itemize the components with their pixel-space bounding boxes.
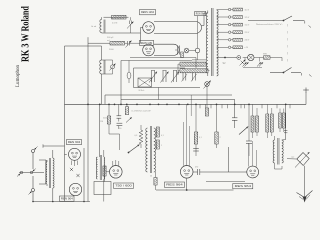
bus ticks <box>200 104 290 108</box>
mains switch pole 1 <box>283 16 292 21</box>
coil L1 <box>100 17 105 33</box>
svg-text:0,1 MOhm 0,25 W: 0,1 MOhm 0,25 W <box>132 111 151 113</box>
svg-text:REN 904: REN 904 <box>68 140 81 144</box>
bus B1 <box>105 95 232 104</box>
wire tuned loop bottom <box>102 32 141 34</box>
trimmer C2 <box>126 41 132 48</box>
svg-text:Lumophon: Lumophon <box>15 65 21 87</box>
vari coil pair 1 <box>149 71 157 83</box>
transformer T5 primary <box>206 11 208 77</box>
band box bottom <box>134 87 201 89</box>
wire v x99 <box>99 104 101 157</box>
pot arrow <box>126 117 132 122</box>
voltage tap row 4 <box>217 31 250 34</box>
tube V5 label <box>114 183 134 188</box>
pilot lamp <box>248 54 254 60</box>
tube V4 <box>143 44 155 56</box>
capacitor C8 value <box>195 167 198 169</box>
tube V2 label <box>60 196 75 201</box>
resistor R10 value <box>161 135 164 137</box>
wire grid drop <box>190 95 192 116</box>
resistor R12 <box>103 166 106 176</box>
svg-text:0,1: 0,1 <box>199 137 202 139</box>
wire loop to transformer <box>202 13 208 26</box>
dial lamp <box>204 81 211 105</box>
tube V6 <box>180 166 193 179</box>
svg-text:220 V: 220 V <box>245 32 250 34</box>
svg-text:2: 2 <box>220 137 221 139</box>
voltage tap row 6 <box>217 46 248 49</box>
vari coil pair 2 <box>161 71 169 83</box>
resistor R9 value <box>100 121 103 123</box>
ground <box>297 191 313 203</box>
antenna jack <box>32 147 38 170</box>
svg-text:REN 904: REN 904 <box>61 197 74 201</box>
svg-text:RES 964: RES 964 <box>166 183 183 187</box>
transformer T3 win2 <box>154 128 156 172</box>
capacitor C8 <box>193 169 229 175</box>
svg-text:0,1: 0,1 <box>161 135 164 137</box>
transformer T4 win1 <box>273 104 274 163</box>
coil L1 value <box>91 25 97 28</box>
tube V1 <box>69 148 81 160</box>
rectifier label box <box>195 11 206 15</box>
svg-text:e 20: e 20 <box>245 47 249 49</box>
pickup jack 1 <box>17 171 23 176</box>
svg-text:Lspr: Lspr <box>291 156 295 159</box>
transformer T5 secondary <box>217 10 219 76</box>
svg-text:150 V: 150 V <box>245 24 250 26</box>
resistor R11 <box>154 172 157 190</box>
bus B3 dots <box>87 104 286 106</box>
wire v x228 <box>228 147 230 172</box>
grid loop V3 <box>154 22 202 34</box>
rectifier D2 <box>257 62 263 66</box>
svg-text:WW: WW <box>263 54 267 56</box>
tube V5 pins <box>113 160 119 166</box>
resistor R13 value <box>199 137 202 139</box>
wire loopline <box>121 61 192 105</box>
wire row2 <box>88 42 141 44</box>
wire to switch <box>270 58 282 62</box>
trimmer C3 <box>102 60 116 74</box>
capacitor C7 <box>117 123 123 129</box>
wire v x100 <box>101 46 103 104</box>
transformer T3 core <box>150 126 151 173</box>
rectifier pilot <box>192 16 206 60</box>
wire tube grid <box>141 28 143 44</box>
transformer T2 win2 <box>104 150 105 202</box>
capacitor C10 <box>246 104 252 156</box>
svg-text:750 / 600: 750 / 600 <box>115 184 132 188</box>
capacitor C xmark b <box>76 174 79 177</box>
bus drop x285 <box>282 104 288 140</box>
svg-text:RES 964: RES 964 <box>235 184 252 188</box>
transformer T2 win1 <box>96 157 97 179</box>
trimmer C1 <box>127 17 134 33</box>
bus B4 <box>156 189 234 191</box>
wire T4 <box>275 136 283 169</box>
resistor pair RP1 <box>251 104 259 138</box>
speaker <box>287 152 310 168</box>
resistor R10 <box>156 127 159 137</box>
resistor R14 value <box>220 137 221 139</box>
resistor R7 <box>125 104 128 114</box>
earth jack <box>29 176 35 202</box>
tube V7 <box>247 166 259 178</box>
resistor R7 value <box>132 111 151 113</box>
mains switch pole 2 <box>283 24 292 73</box>
resistor R2 value <box>109 49 114 51</box>
capacitor C4 <box>175 46 180 55</box>
shield box top <box>65 45 102 47</box>
svg-text:470: 470 <box>195 167 198 169</box>
bus drop x234 with capacitor <box>232 100 237 129</box>
cap electrolytic <box>127 61 131 84</box>
shield stub <box>43 144 65 147</box>
svg-text:RGN 954: RGN 954 <box>196 12 206 15</box>
svg-text:50: 50 <box>150 176 152 178</box>
tube V6 label <box>165 182 185 187</box>
wire mains line 1 <box>248 21 305 24</box>
bus B2 <box>121 99 235 101</box>
dial lamp resistor <box>206 104 209 116</box>
wire tuned loop top <box>104 16 129 18</box>
tube V7 pins <box>229 141 257 172</box>
resistor R9 <box>107 116 119 150</box>
svg-text:Netzanschluss 220 V~: Netzanschluss 220 V~ <box>256 23 284 26</box>
capacitor C6 <box>117 104 122 121</box>
lamp symbol <box>184 48 189 53</box>
pot arrow 2 <box>239 127 248 135</box>
transformer T4 win2 <box>282 140 283 163</box>
title Lumophon (brand, rotated) <box>15 65 21 87</box>
capacitor C7 value <box>118 128 122 130</box>
svg-text:RK 3 W Roland: RK 3 W Roland <box>21 6 32 62</box>
wire v x109 <box>108 104 110 116</box>
resistor R1 <box>112 15 127 19</box>
resistor R2 <box>110 41 125 45</box>
resistor R1 value <box>112 23 117 25</box>
capacitor C6 value <box>103 118 108 120</box>
wire plate res <box>206 64 210 71</box>
tube V3 label <box>140 10 156 15</box>
capacitor C9 <box>193 149 199 152</box>
band box top <box>134 68 186 88</box>
resistor pair RP3 <box>279 109 286 133</box>
label mid <box>107 37 114 42</box>
svg-text:240 V: 240 V <box>245 40 250 42</box>
label S2 <box>223 62 227 65</box>
svg-text:110 V: 110 V <box>245 9 250 11</box>
resistor R6 <box>263 54 270 60</box>
wire v x88 <box>87 37 89 201</box>
transformer T5 core <box>211 8 213 76</box>
wire comb drop <box>158 88 160 100</box>
bus B3 (main) <box>65 103 307 105</box>
switch arrow wave <box>128 145 140 154</box>
wire mains line 2 <box>270 73 301 76</box>
tube V4 label <box>140 40 154 45</box>
mains plug mark 2 <box>309 75 312 77</box>
resistor pair RP2 <box>266 104 274 138</box>
svg-text:500 pF: 500 pF <box>107 37 114 39</box>
tube V6 pins <box>184 104 190 190</box>
coil L2 <box>100 60 105 74</box>
wire diode stubs <box>243 58 262 68</box>
tube V3 <box>143 22 155 34</box>
svg-text:1M: 1M <box>100 121 103 123</box>
resistor R5 <box>178 64 208 75</box>
transformer T3 win1 <box>146 128 148 172</box>
wire V1-V2 column <box>65 148 85 202</box>
transformer T4 core <box>278 138 279 165</box>
resistor R14 <box>215 104 218 148</box>
resistor R10b <box>156 140 162 149</box>
contact pair 1 <box>182 73 188 82</box>
tube V7 label <box>233 184 253 189</box>
wire pickup row <box>19 172 44 174</box>
mains plug mark <box>309 26 312 28</box>
rectifier D1 <box>243 62 249 66</box>
tube V2 <box>69 183 81 195</box>
voltage tap row 1 <box>217 8 250 11</box>
capacitor C xmark a <box>70 168 73 171</box>
tube V1 label <box>67 140 82 145</box>
resistor R8 zigzag <box>135 125 143 148</box>
resistor R3 <box>181 52 184 58</box>
plus junction <box>303 88 309 105</box>
trimmer C5 <box>240 60 246 66</box>
antenna coil T1 <box>46 150 54 202</box>
svg-text:RENS 1264: RENS 1264 <box>141 10 155 14</box>
transformer T2 core <box>100 155 101 180</box>
wire bottom bus left <box>32 201 90 203</box>
voltage tap row 3 <box>217 23 250 26</box>
contact pair 2 <box>191 73 197 82</box>
shield can box <box>94 182 111 195</box>
wire to ground <box>304 166 306 197</box>
svg-text:Gr ab: Gr ab <box>91 25 97 28</box>
band switch box <box>138 78 151 87</box>
title RK 3 W Roland (model, rotated) <box>21 6 32 62</box>
svg-text:125 V: 125 V <box>245 17 250 19</box>
wire loop feed <box>130 58 196 69</box>
resistor R11 value <box>150 176 152 178</box>
vari coil pair 3 <box>171 71 179 83</box>
voltage tap row 5 <box>217 38 250 41</box>
bracket to coil <box>39 160 46 184</box>
wire after loop <box>130 51 196 58</box>
svg-text:W.Sch: W.Sch <box>139 90 145 92</box>
pickup jack 2 <box>30 169 36 174</box>
wire heater row <box>217 57 237 59</box>
pilot lamp small <box>237 56 241 60</box>
band switch box label <box>139 90 145 92</box>
mains label <box>256 23 284 26</box>
svg-text:0,5 M: 0,5 M <box>112 23 117 25</box>
resistor R13 <box>194 104 197 156</box>
voltage tap row 2 <box>217 16 250 19</box>
grid loop V4 <box>154 44 179 55</box>
tube V1 pins <box>72 160 78 166</box>
resistor R4 <box>178 62 206 66</box>
svg-text:1: 1 <box>161 145 162 147</box>
wire lamp-res <box>243 57 264 59</box>
shield box left <box>64 46 66 202</box>
wire V5 <box>105 172 110 182</box>
tube V5 <box>110 166 123 179</box>
wire under V6 <box>206 181 245 183</box>
